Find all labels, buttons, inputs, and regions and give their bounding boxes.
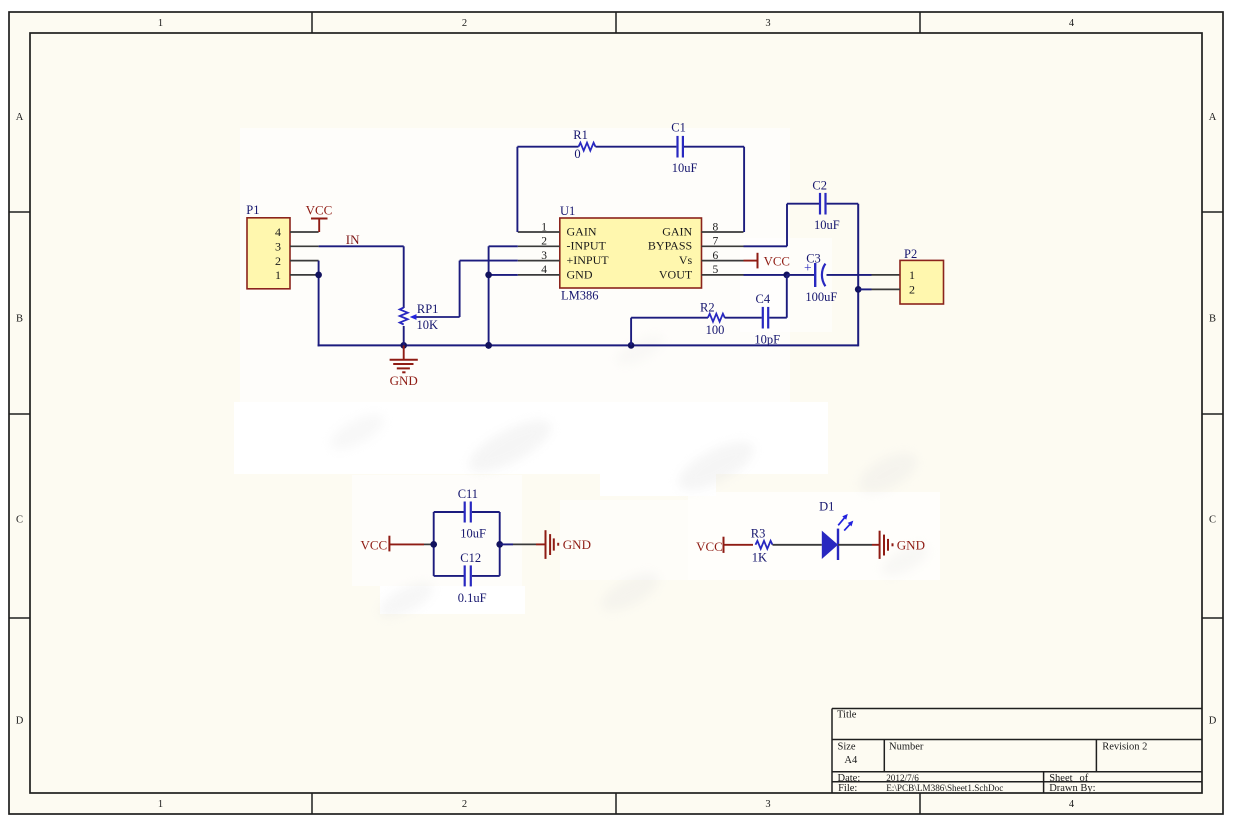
- svg-text:VCC: VCC: [696, 539, 723, 554]
- svg-text:4: 4: [1069, 18, 1075, 29]
- svg-text:4: 4: [1069, 799, 1075, 810]
- svg-text:2: 2: [462, 799, 467, 810]
- svg-text:1: 1: [275, 268, 281, 282]
- svg-text:D: D: [16, 716, 24, 727]
- svg-text:Drawn By:: Drawn By:: [1049, 783, 1095, 794]
- svg-text:B: B: [1209, 314, 1216, 325]
- svg-text:GND: GND: [567, 267, 593, 281]
- svg-text:3: 3: [541, 250, 547, 262]
- svg-text:R3: R3: [751, 527, 766, 541]
- svg-text:C3: C3: [806, 252, 821, 266]
- svg-text:VOUT: VOUT: [659, 267, 693, 281]
- svg-text:1: 1: [909, 268, 915, 282]
- svg-text:VCC: VCC: [306, 203, 333, 218]
- svg-text:VCC: VCC: [361, 538, 388, 553]
- svg-text:BYPASS: BYPASS: [648, 239, 692, 253]
- svg-text:GAIN: GAIN: [662, 224, 692, 238]
- svg-text:B: B: [16, 314, 23, 325]
- svg-text:1K: 1K: [752, 551, 767, 565]
- svg-text:LM386: LM386: [561, 288, 599, 302]
- svg-text:10K: 10K: [417, 318, 439, 332]
- svg-text:Title: Title: [837, 710, 857, 721]
- svg-text:1: 1: [541, 221, 547, 233]
- svg-text:3: 3: [765, 799, 770, 810]
- svg-text:1: 1: [158, 18, 163, 29]
- svg-text:-INPUT: -INPUT: [567, 239, 607, 253]
- svg-text:+INPUT: +INPUT: [567, 253, 610, 267]
- svg-text:D: D: [1209, 716, 1217, 727]
- svg-text:10uF: 10uF: [672, 161, 698, 175]
- svg-text:1: 1: [158, 799, 163, 810]
- svg-text:Number: Number: [889, 741, 924, 752]
- svg-text:GND: GND: [897, 537, 925, 552]
- svg-text:GND: GND: [563, 537, 591, 552]
- svg-text:IN: IN: [346, 232, 360, 247]
- svg-text:6: 6: [713, 250, 719, 262]
- svg-text:100uF: 100uF: [805, 290, 837, 304]
- svg-text:C4: C4: [756, 292, 771, 306]
- svg-text:VCC: VCC: [764, 254, 790, 268]
- svg-text:P2: P2: [904, 247, 917, 261]
- svg-text:C1: C1: [671, 121, 686, 135]
- svg-text:4: 4: [275, 225, 281, 239]
- svg-text:2: 2: [541, 236, 547, 248]
- svg-text:C: C: [16, 515, 23, 526]
- svg-text:GAIN: GAIN: [567, 224, 597, 238]
- svg-text:10uF: 10uF: [460, 526, 486, 540]
- svg-text:2: 2: [909, 283, 915, 297]
- svg-text:Revision 2: Revision 2: [1102, 741, 1147, 752]
- svg-text:10uF: 10uF: [814, 218, 840, 232]
- svg-text:GND: GND: [390, 373, 418, 388]
- svg-text:10pF: 10pF: [754, 332, 780, 346]
- svg-text:A4: A4: [844, 755, 858, 766]
- svg-text:Size: Size: [838, 741, 856, 752]
- svg-text:C12: C12: [460, 551, 481, 565]
- svg-text:3: 3: [765, 18, 770, 29]
- svg-text:3: 3: [275, 240, 281, 254]
- svg-text:A: A: [16, 112, 24, 123]
- svg-text:RP1: RP1: [417, 302, 439, 316]
- svg-text:2: 2: [462, 18, 467, 29]
- svg-text:0.1uF: 0.1uF: [458, 591, 487, 605]
- svg-text:Vs: Vs: [679, 253, 693, 267]
- svg-text:D1: D1: [819, 500, 834, 514]
- svg-text:R1: R1: [573, 128, 588, 142]
- svg-text:4: 4: [541, 264, 547, 276]
- svg-text:100: 100: [706, 323, 725, 337]
- svg-text:File:: File:: [838, 783, 857, 794]
- svg-text:U1: U1: [560, 204, 575, 218]
- svg-text:0: 0: [574, 147, 580, 161]
- svg-text:A: A: [1209, 112, 1217, 123]
- svg-text:C2: C2: [812, 179, 827, 193]
- svg-text:5: 5: [713, 264, 719, 276]
- svg-text:C11: C11: [458, 487, 478, 501]
- svg-text:E:\PCB\LM386\Sheet1.SchDoc: E:\PCB\LM386\Sheet1.SchDoc: [886, 783, 1003, 793]
- svg-text:2012/7/6: 2012/7/6: [886, 773, 919, 783]
- svg-text:C: C: [1209, 515, 1216, 526]
- svg-text:8: 8: [713, 221, 719, 233]
- svg-text:2: 2: [275, 254, 281, 268]
- svg-text:P1: P1: [246, 203, 259, 217]
- svg-text:7: 7: [713, 236, 719, 248]
- svg-text:R2: R2: [700, 301, 715, 315]
